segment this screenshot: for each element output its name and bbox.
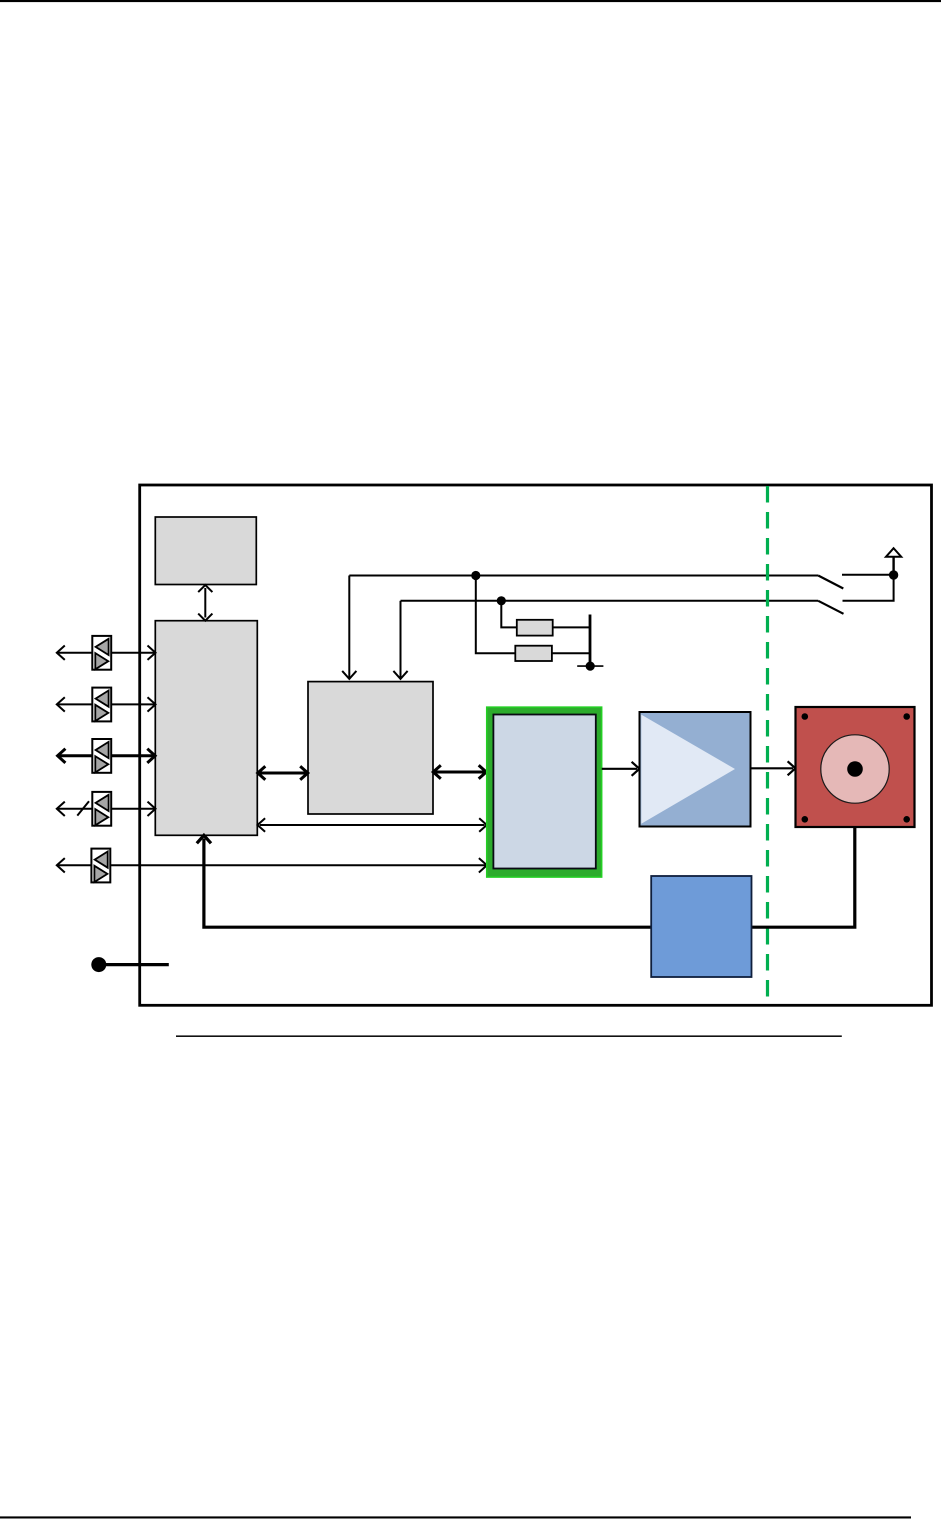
motor M1 [796,707,915,827]
block U2 controller (tall) [155,621,257,836]
PWM block (green bordered) [487,707,602,877]
connector J4 [92,792,111,826]
page footer rule [0,1516,911,1518]
amplifier A1 [640,712,751,827]
node C junction [586,662,595,671]
resistor R1 [517,620,553,636]
wire bidirectional U2-PWM lower [258,818,487,832]
wire drop B into U3 [393,601,407,679]
net line A top [349,575,818,577]
wire bidirectional U3-PWM bold [433,765,486,779]
wire drop A into U3 [342,576,356,679]
wire J4 to U2 [111,802,155,816]
bus vertical at resistors [589,615,592,667]
power input stub wire [99,963,169,966]
wire J5 left [57,858,92,872]
block U1 top-left [155,517,256,585]
feedback wire bold from U2 to motor [197,827,855,927]
wire J1 to U2 [111,646,155,660]
diagram frame [140,485,932,1005]
wire bidirectional U2-U3 bold [258,766,308,780]
resistor R2 [515,646,552,661]
sensor block (blue) [651,876,751,977]
wire J1 left [57,646,93,660]
separation dashed line (green) [766,486,769,1004]
connector J2 [92,688,111,722]
switch S2 blade [818,601,843,614]
net line B [401,600,819,602]
wire amplifier to motor [751,761,796,775]
power input node [91,957,106,972]
wire R2 right [552,652,590,654]
wire S2 out [843,575,894,601]
wire J3 to U2 bold [111,749,155,763]
bus slash J4 [77,801,89,815]
node A junction [471,571,480,580]
wire R1 right [553,626,590,628]
wire node B to R1 [501,601,517,628]
node D junction [889,570,898,579]
switch S1 blade [818,576,843,589]
wire J5 to PWM block [110,858,487,872]
caption rule [176,1035,842,1037]
page header rule [0,0,941,2]
wire J2 left [57,697,93,711]
wire J4 left [57,802,93,816]
antenna symbol [886,548,901,557]
connector J5 [91,849,110,883]
wire J3 left bold [58,749,93,763]
wire J2 to U2 [111,697,155,711]
connector J1 [92,636,111,670]
wire S1 out [842,574,894,576]
wire bidirectional U1-U2 [198,585,212,621]
wire node C stub [577,665,603,667]
connector J3 [92,739,111,773]
wire node A to R2 [476,576,516,654]
block U3 middle [308,682,433,814]
wire antenna feed [892,557,894,575]
wire PWM to amplifier [602,762,640,776]
node B junction [497,596,506,605]
